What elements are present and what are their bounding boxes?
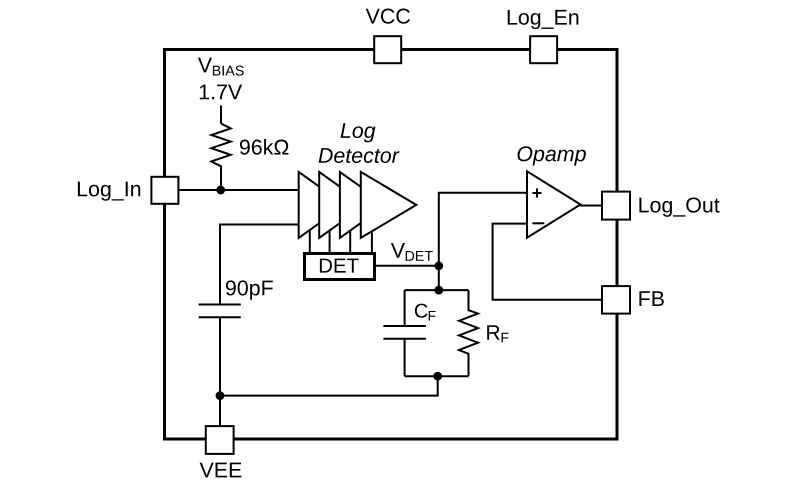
label Log_In — [78, 182, 140, 201]
op-amp plus input mark — [532, 192, 541, 194]
node junction 90pF at VEE rail — [216, 391, 225, 400]
label Log Detector — [341, 123, 376, 142]
wire VDET node up to op-amp plus input — [439, 193, 527, 290]
amplifier stage A3 — [340, 172, 386, 238]
pin Log_In — [151, 177, 178, 204]
label FB — [639, 291, 663, 306]
pin Log_En — [530, 36, 557, 63]
resistor R1 96k zigzag — [211, 124, 230, 191]
label Log_Out — [639, 197, 719, 216]
amplifier stage A4 — [361, 172, 417, 238]
wire lower detector input to 90pF branch — [220, 225, 300, 305]
label RF — [487, 325, 499, 339]
wire CF RF top rail — [405, 289, 469, 291]
DET box — [305, 254, 375, 280]
wire Log_In pin to log detector input — [178, 189, 300, 191]
amplifier stage A2 — [319, 172, 365, 238]
label DET — [320, 259, 359, 273]
wire CF top lead — [404, 290, 406, 326]
pin VCC — [374, 36, 401, 63]
node junction CF RF top — [434, 286, 443, 295]
node VDET junction — [434, 261, 443, 270]
wire VBIAS lead into resistor — [220, 106, 222, 124]
node junction resistor with Log_In wire — [216, 186, 225, 195]
label Opamp — [518, 146, 586, 165]
label VCC — [366, 9, 410, 24]
label CF — [415, 304, 428, 318]
label VDET — [391, 243, 405, 258]
op-amp U1 — [527, 171, 581, 237]
pin Log_Out — [602, 192, 630, 220]
capacitor CF plates — [383, 325, 426, 327]
label 90pF — [226, 280, 273, 299]
label VEE — [200, 463, 242, 478]
capacitor C1 90pF plates — [199, 304, 241, 306]
wire feedback FB pin to op-amp minus input — [493, 224, 602, 300]
wire stage taps to DET box — [309, 228, 311, 253]
pin FB — [602, 286, 630, 314]
op-amp minus input mark — [532, 222, 544, 224]
wire op-amp output to Log_Out pin — [580, 205, 602, 207]
IC boundary box — [165, 50, 618, 440]
wire DET output to VDET node — [376, 265, 439, 267]
label Log_En — [508, 10, 579, 29]
amplifier stage A1 — [299, 172, 345, 238]
node junction CF RF bottom — [433, 372, 442, 381]
resistor RF zigzag — [459, 290, 478, 376]
wire CF bottom lead — [404, 339, 406, 376]
wire VEE rail to CF RF bottom — [220, 376, 438, 395]
wire CF RF bottom rail — [405, 375, 469, 377]
label VBIAS 1.7V — [198, 58, 212, 73]
pin VEE — [206, 426, 234, 454]
label 96k ohm — [240, 139, 289, 155]
wire 90pF bottom lead to VEE pin — [219, 317, 221, 427]
